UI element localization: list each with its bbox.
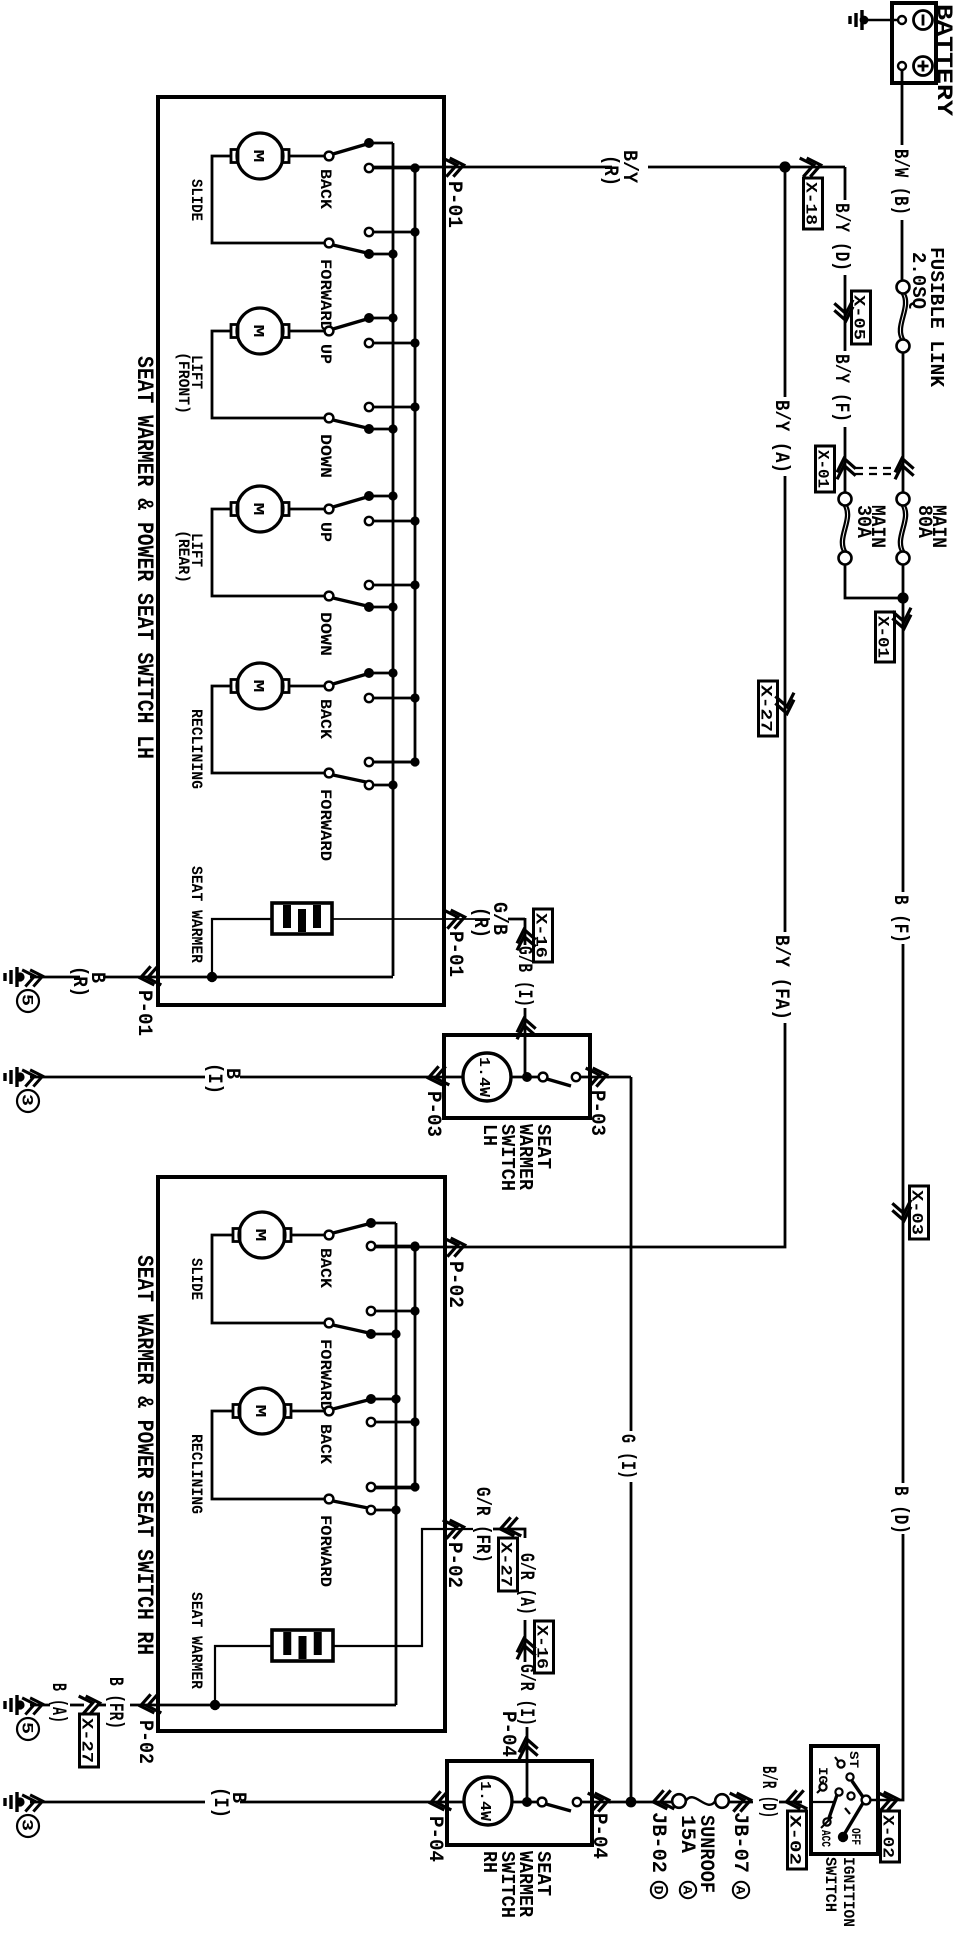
wire to P-04 exit <box>581 1801 611 1804</box>
svg-text:M: M <box>251 1229 268 1242</box>
wire heater left lead RH <box>215 1646 272 1705</box>
wire contact to bus2 <box>373 520 415 523</box>
wire B (I) <box>240 1076 446 1079</box>
svg-text:1.4W: 1.4W <box>476 1781 493 1821</box>
wire MAIN 80A out <box>902 564 905 892</box>
junction bus1 RH <box>391 1505 400 1514</box>
contact open UP LH <box>365 339 373 347</box>
wire B (R) to bus1 <box>156 976 393 979</box>
switch pivot UP LH <box>325 327 334 336</box>
contact ST <box>837 1760 844 1767</box>
contact open FORWARD RH <box>367 1307 375 1315</box>
contact open BACK RH <box>367 1242 375 1250</box>
svg-text:X-27: X-27 <box>757 685 775 732</box>
svg-text:5: 5 <box>18 1722 36 1734</box>
svg-text:A: A <box>680 1886 695 1895</box>
junction bus2 RH <box>410 1306 419 1315</box>
motor M LIFT (REAR) LH <box>231 486 289 532</box>
svg-text:B/Y (FA): B/Y (FA) <box>769 935 792 1020</box>
connector X-05 chevron <box>834 300 855 323</box>
svg-text:P-01: P-01 <box>132 990 155 1036</box>
connector P-02 chevron G/R <box>443 1518 466 1539</box>
wire open contact to P-01 exit <box>373 166 446 169</box>
svg-text:P-01: P-01 <box>443 931 466 977</box>
ground number 5 <box>17 990 39 1012</box>
svg-text:X-01: X-01 <box>874 616 892 658</box>
ignition rotor arm OFF <box>845 1803 863 1833</box>
wire contact to bus2 <box>375 1421 415 1424</box>
ignition common contact <box>862 1796 871 1805</box>
contact closed FORWARD LH <box>364 249 374 259</box>
svg-text:B/R (D): B/R (D) <box>756 1766 779 1818</box>
wire contact to bus2 <box>375 1245 415 1248</box>
svg-text:X-05: X-05 <box>850 295 868 340</box>
contact OFF <box>838 1832 848 1842</box>
switch arm FORWARD LH <box>333 775 366 782</box>
connector X-16 chevron RH <box>515 1637 536 1660</box>
connector X-02 left <box>788 1811 807 1869</box>
box SEAT WARMER SWITCH RH <box>447 1761 592 1845</box>
wire contact to bus1 <box>369 495 393 498</box>
motor M SLIDE RH <box>233 1212 291 1258</box>
svg-text:X-02: X-02 <box>786 1815 804 1865</box>
wire motor to switch <box>291 1234 325 1237</box>
switch pivot BACK LH <box>325 682 334 691</box>
wire motor to lower switch <box>212 156 325 243</box>
contact ACC2 <box>847 1792 854 1799</box>
svg-text:RECLINING: RECLINING <box>187 709 205 789</box>
connector P-04 chevron right <box>588 1791 611 1812</box>
switch pivot UP LH <box>325 505 334 514</box>
svg-text:IGNITION: IGNITION <box>839 1857 857 1927</box>
connector P-03 chevron right <box>586 1066 609 1087</box>
contact open UP LH <box>365 517 373 525</box>
motor M SLIDE LH <box>231 133 289 179</box>
ignition arm ACC link <box>829 1795 837 1818</box>
contact closed DOWN LH <box>364 424 374 434</box>
contact ACC <box>823 1818 830 1825</box>
switch pivot BACK RH <box>325 1407 334 1416</box>
switch arm FORWARD RH <box>333 1501 368 1508</box>
bus2 bottom corner wire <box>373 761 415 764</box>
bulb 1.4W RH <box>464 1777 512 1825</box>
wire B (I) from ground <box>30 1076 205 1079</box>
bus1 RH <box>395 1223 398 1705</box>
connector X-02 chevron right <box>877 1790 900 1811</box>
svg-text:X-27: X-27 <box>497 1542 515 1587</box>
junction bus1 RH <box>391 1394 400 1403</box>
svg-text:FORWARD: FORWARD <box>316 259 334 331</box>
svg-text:SEAT WARMER: SEAT WARMER <box>187 866 205 963</box>
fusible link <box>897 281 910 294</box>
wire contact to bus1 <box>369 606 393 609</box>
svg-text:M: M <box>249 503 266 516</box>
contact open BACK LH <box>365 164 373 172</box>
contact open BACK RH <box>367 1418 375 1426</box>
wire contact to bus1 <box>369 428 393 431</box>
bus2 RH <box>414 1247 417 1486</box>
svg-text:B (F): B (F) <box>888 895 911 943</box>
switch arm UP LH <box>333 319 367 329</box>
connector X-02 chevron left <box>785 1790 808 1811</box>
wire G/B (I) <box>524 1008 527 1077</box>
switch arm DOWN LH <box>333 420 367 428</box>
svg-text:(REAR): (REAR) <box>174 530 192 583</box>
wire motor to switch <box>291 1410 325 1413</box>
wire motor to lower switch <box>212 331 325 418</box>
connector P-04 chevron top <box>517 1737 538 1760</box>
svg-text:ACC: ACC <box>818 1830 833 1847</box>
contact open DOWN LH <box>365 581 373 589</box>
wire to G (I) corner <box>607 1076 631 1079</box>
contact open BACK LH <box>365 694 373 702</box>
svg-text:P-02: P-02 <box>443 1261 466 1308</box>
wire into bulb RH <box>447 1801 464 1804</box>
svg-text:BACK: BACK <box>316 1248 334 1288</box>
connector X-02 right <box>881 1811 900 1862</box>
wire B (I) from ground RH <box>30 1801 205 1804</box>
svg-text:M: M <box>249 325 266 338</box>
fuse MAIN 80A <box>897 493 910 506</box>
wire P-02 supply entry <box>375 1246 446 1249</box>
switch arm FORWARD RH <box>333 1325 369 1333</box>
svg-text:IG: IG <box>815 1767 830 1784</box>
svg-text:LH: LH <box>478 1124 500 1146</box>
switch contact SEAT WARMER SWITCH LH <box>572 1073 580 1081</box>
wire B (FR) <box>98 1704 106 1707</box>
bulb 1.4W LH <box>463 1053 511 1101</box>
connector X-01 chevron lower <box>892 608 913 631</box>
svg-text:X-27: X-27 <box>78 1718 96 1763</box>
connector P-02 chevron left <box>139 1694 162 1715</box>
svg-text:P-04: P-04 <box>587 1813 610 1859</box>
wire G/B down <box>524 918 527 945</box>
svg-text:(R): (R) <box>468 907 491 938</box>
svg-text:SEAT WARMER & POWER SEAT SWITC: SEAT WARMER & POWER SEAT SWITCH LH <box>131 356 157 759</box>
contact closed UP LH <box>364 491 374 501</box>
svg-text:SLIDE: SLIDE <box>187 1258 205 1300</box>
wire motor to switch <box>289 685 325 688</box>
switch pivot FORWARD LH <box>325 769 334 778</box>
svg-text:80A: 80A <box>912 505 935 538</box>
switch pivot SEAT WARMER SWITCH LH <box>539 1073 548 1082</box>
wire heater to G/R exit <box>333 1529 473 1646</box>
svg-text:X-02: X-02 <box>879 1815 897 1858</box>
svg-text:X-03: X-03 <box>908 1190 926 1235</box>
svg-text:B (A): B (A) <box>46 1683 69 1723</box>
switch pivot BACK RH <box>325 1231 334 1240</box>
svg-text:3: 3 <box>18 1094 36 1106</box>
ground 3 LH switch <box>5 1067 17 1087</box>
junction bus1 <box>388 249 397 258</box>
connector P-04 chevron left <box>429 1791 452 1812</box>
wire B/Y (R) to junction <box>648 166 784 169</box>
svg-text:B/Y (A): B/Y (A) <box>769 400 792 473</box>
svg-text:UP: UP <box>316 344 334 364</box>
svg-text:B/Y (F): B/Y (F) <box>829 354 852 422</box>
switch arm BACK LH <box>333 674 367 684</box>
switch arm FORWARD LH <box>333 245 367 253</box>
wire contact to bus2 <box>373 697 415 700</box>
wire main to X-01 <box>902 352 905 493</box>
motor M RECLINING RH <box>233 1388 291 1434</box>
connector P-03 chevron left <box>427 1066 450 1087</box>
connector X-03 <box>910 1186 929 1239</box>
connector X-27 bottom left <box>80 1714 99 1767</box>
svg-text:30A: 30A <box>851 505 874 538</box>
box SEAT WARMER & POWER SEAT SWITCH LH <box>158 97 444 1005</box>
connector P-01 chevron left <box>139 966 162 987</box>
svg-text:P-02: P-02 <box>442 1542 465 1588</box>
wire motor to lower switch <box>212 686 325 773</box>
junction bus1 <box>388 780 397 789</box>
battery ground <box>864 19 898 22</box>
svg-text:M: M <box>249 680 266 693</box>
wire ignition to X-02 right <box>871 1799 899 1801</box>
wire G (I) upper <box>630 1077 633 1431</box>
svg-text:15A: 15A <box>675 1815 698 1853</box>
wire motor to lower switch <box>212 509 325 596</box>
connector P-01 chevron G/B <box>444 908 467 929</box>
wire B/Y (D) <box>844 167 847 200</box>
wire to P-03 exit <box>580 1076 609 1079</box>
switch arm BACK RH <box>333 1224 368 1233</box>
svg-text:OFF: OFF <box>848 1828 863 1845</box>
wire motor to lower switch <box>212 1411 325 1499</box>
svg-text:G/R (FR): G/R (FR) <box>470 1487 493 1563</box>
connector X-27 on B/Y <box>759 681 778 736</box>
junction bus2 top RH <box>410 1242 419 1251</box>
svg-text:B/W (B): B/W (B) <box>888 149 911 215</box>
switch arm UP LH <box>333 497 367 507</box>
svg-text:X-01: X-01 <box>814 450 832 488</box>
connector JB-02 chevron <box>652 1790 675 1811</box>
svg-text:BATTERY: BATTERY <box>931 4 956 117</box>
connector X-05 <box>852 291 871 344</box>
junction heater lead node RH <box>210 1700 220 1710</box>
ground 5 RH <box>5 1695 17 1715</box>
contact closed BACK LH <box>364 138 374 148</box>
svg-text:(FRONT): (FRONT) <box>174 352 192 414</box>
connector X-01 chevron right <box>893 457 914 480</box>
svg-text:DOWN: DOWN <box>316 434 334 478</box>
svg-text:X-18: X-18 <box>802 182 820 225</box>
svg-text:SLIDE: SLIDE <box>187 179 205 221</box>
wire contact to bus2 <box>375 1310 415 1313</box>
wire contact to bus2 <box>373 342 415 345</box>
switch pivot BACK LH <box>325 152 334 161</box>
wire B (FR) to bus1 RH <box>156 1704 396 1707</box>
svg-text:(I): (I) <box>202 1063 225 1094</box>
switch arm DOWN LH <box>333 598 367 606</box>
svg-text:B (D): B (D) <box>888 1486 911 1534</box>
wire contact to bus1 <box>369 142 393 145</box>
wire contact to bus1 <box>369 672 393 675</box>
contact closed BACK RH <box>366 1218 376 1228</box>
junction bus2 <box>410 227 419 236</box>
contact ST2 <box>846 1773 853 1780</box>
junction bus2 RH <box>410 1241 419 1250</box>
wire G (I) lower <box>630 1482 633 1802</box>
wire contact to bus2 <box>373 584 415 587</box>
switch arm SEAT WARMER SWITCH LH <box>547 1079 571 1086</box>
switch arm BACK LH <box>333 144 367 154</box>
wire MAIN 30A out <box>845 564 901 598</box>
connector X-16 chevron <box>515 928 536 951</box>
svg-text:(I): (I) <box>208 1787 231 1818</box>
contact closed UP LH <box>364 313 374 323</box>
X-01 dashed connector line <box>855 468 896 474</box>
svg-text:UP: UP <box>316 522 334 542</box>
svg-text:P-04: P-04 <box>496 1711 519 1757</box>
connector X-01 chevron left <box>835 457 856 480</box>
contact FORWARD RH <box>367 1506 375 1514</box>
svg-text:2.0SQ: 2.0SQ <box>907 252 929 309</box>
svg-text:D: D <box>651 1886 666 1895</box>
switch arm SEAT WARMER SWITCH RH <box>546 1804 571 1811</box>
wire contact to bus1 <box>373 784 393 787</box>
wire contact to bus2 <box>373 231 415 234</box>
svg-text:BACK: BACK <box>316 169 334 209</box>
fuse SUNROOF 15A <box>672 1794 686 1808</box>
junction bus2 <box>410 580 419 589</box>
svg-text:B (FR): B (FR) <box>103 1677 126 1729</box>
box IGNITION SWITCH <box>811 1746 878 1854</box>
svg-text:1.4W: 1.4W <box>475 1057 492 1097</box>
wire contact to bus2 <box>373 761 415 764</box>
wire ignition input <box>813 1801 835 1803</box>
svg-text:SEAT WARMER: SEAT WARMER <box>187 1592 205 1689</box>
connector X-16 <box>534 909 553 962</box>
wire G/B corner <box>508 918 525 921</box>
svg-text:G/R (A): G/R (A) <box>514 1553 537 1615</box>
connector P-01 chevron right <box>443 156 466 177</box>
svg-text:X-16: X-16 <box>533 1625 551 1669</box>
wire G/R corner <box>516 1529 525 1538</box>
wire B (I) RH <box>240 1801 449 1804</box>
junction bus1 RH <box>391 1329 400 1338</box>
ground 5 LH <box>5 967 17 987</box>
contact IG stub <box>817 1790 820 1793</box>
junction B/Y node <box>779 161 790 172</box>
svg-text:RH: RH <box>478 1851 500 1873</box>
svg-text:P-03: P-03 <box>585 1090 608 1136</box>
junction bulb switch node RH <box>522 1797 532 1807</box>
connector X-27 chevron bottom left <box>79 1694 102 1715</box>
wire motor to switch <box>289 508 325 511</box>
contact FORWARD LH <box>365 781 373 789</box>
contact open FORWARD LH <box>365 228 373 236</box>
wire to JB-02 <box>631 1801 672 1804</box>
connector X-01 upper <box>816 446 835 492</box>
junction bus2 <box>410 402 419 411</box>
contact IG2 <box>835 1788 842 1795</box>
switch pivot FORWARD LH <box>325 239 334 248</box>
wire motor to switch <box>289 155 325 158</box>
svg-text:(R): (R) <box>67 966 90 997</box>
svg-text:M: M <box>251 1405 268 1418</box>
wire motor to switch <box>289 330 325 333</box>
contact ST stub <box>835 1757 838 1761</box>
switch arm BACK RH <box>333 1400 368 1409</box>
connector X-03 chevron <box>892 1200 913 1223</box>
connector X-01 lower <box>876 612 895 662</box>
wire to X-18 corner <box>785 166 845 169</box>
connector JB-07 chevron <box>730 1791 753 1812</box>
bus2 top corner to P-01 exit <box>410 163 419 172</box>
svg-text:SEAT WARMER & POWER SEAT SWITC: SEAT WARMER & POWER SEAT SWITCH RH <box>131 1255 157 1655</box>
wire heater left lead <box>212 919 272 976</box>
connector X-27 chevron <box>775 693 796 716</box>
wire motor to lower switch <box>212 1235 325 1323</box>
heater element SEAT WARMER RH <box>272 1630 333 1661</box>
battery positive pin <box>898 62 906 70</box>
wire bulb to switch RH <box>512 1801 540 1804</box>
svg-text:JB-02: JB-02 <box>646 1812 669 1873</box>
connector X-27 chevron G/R <box>499 1517 522 1538</box>
bus1 LH (ground side) <box>392 143 395 976</box>
svg-text:(R): (R) <box>598 155 621 186</box>
svg-text:BACK: BACK <box>316 1424 334 1464</box>
wire G/R (A) <box>524 1620 527 1662</box>
wire B/Y (A) <box>784 167 787 397</box>
junction bus2 RH <box>410 1417 419 1426</box>
switch pivot SEAT WARMER SWITCH RH <box>538 1798 547 1807</box>
motor M RECLINING LH <box>231 663 289 709</box>
fuse MAIN 30A <box>839 493 852 506</box>
junction bulb switch node <box>522 1072 532 1082</box>
wire B/W to fusible link <box>901 220 904 281</box>
junction bus2 <box>410 338 419 347</box>
svg-text:P-03: P-03 <box>421 1091 444 1137</box>
contact open DOWN LH <box>365 403 373 411</box>
svg-text:M: M <box>249 150 266 163</box>
junction bus1 <box>388 602 397 611</box>
wire heater to G/B (R) exit <box>332 918 490 920</box>
junction bus2 <box>410 516 419 525</box>
connector X-27 RH <box>499 1538 518 1591</box>
contact open FORWARD RH <box>367 1483 375 1491</box>
junction bus1 <box>388 313 397 322</box>
connector X-16 RH <box>535 1621 554 1673</box>
connector X-18 <box>804 178 823 229</box>
wire B (F) to X-03 <box>902 944 905 1483</box>
junction bus1 <box>388 424 397 433</box>
ignition link dash <box>845 1808 850 1814</box>
wire B (A) from ground <box>30 1704 50 1707</box>
wire G/R <box>493 1528 516 1531</box>
wire B (R) from ground <box>30 976 80 979</box>
wire B (D) to ignition switch <box>899 1534 903 1800</box>
contact IG <box>819 1783 826 1790</box>
switch pivot DOWN LH <box>325 414 334 423</box>
svg-text:A: A <box>733 1886 748 1895</box>
svg-text:RECLINING: RECLINING <box>187 1434 205 1514</box>
wire G/R (I) into switch <box>526 1727 529 1802</box>
wire B (R) <box>103 976 158 979</box>
wire B (FR) 2 <box>130 1704 158 1707</box>
junction bus2 RH <box>410 1482 419 1491</box>
svg-text:P-01: P-01 <box>442 181 465 228</box>
wire contact to bus2 <box>373 406 415 409</box>
junction G (I) node <box>626 1797 637 1808</box>
switch pivot DOWN LH <box>325 592 334 601</box>
svg-text:DOWN: DOWN <box>316 612 334 656</box>
wire B/W from battery <box>901 70 904 145</box>
wire to junction G (I) <box>609 1801 631 1804</box>
battery <box>892 3 936 83</box>
junction bus2 <box>410 693 419 702</box>
